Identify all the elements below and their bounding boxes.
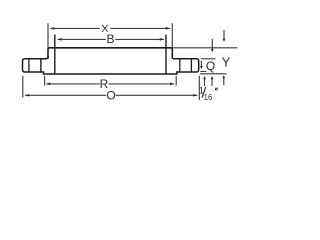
svg-text:B: B — [106, 32, 114, 46]
svg-text:Y: Y — [222, 54, 231, 69]
svg-text:Q: Q — [206, 59, 215, 73]
svg-text:O: O — [106, 89, 115, 103]
svg-text:16: 16 — [204, 93, 213, 102]
